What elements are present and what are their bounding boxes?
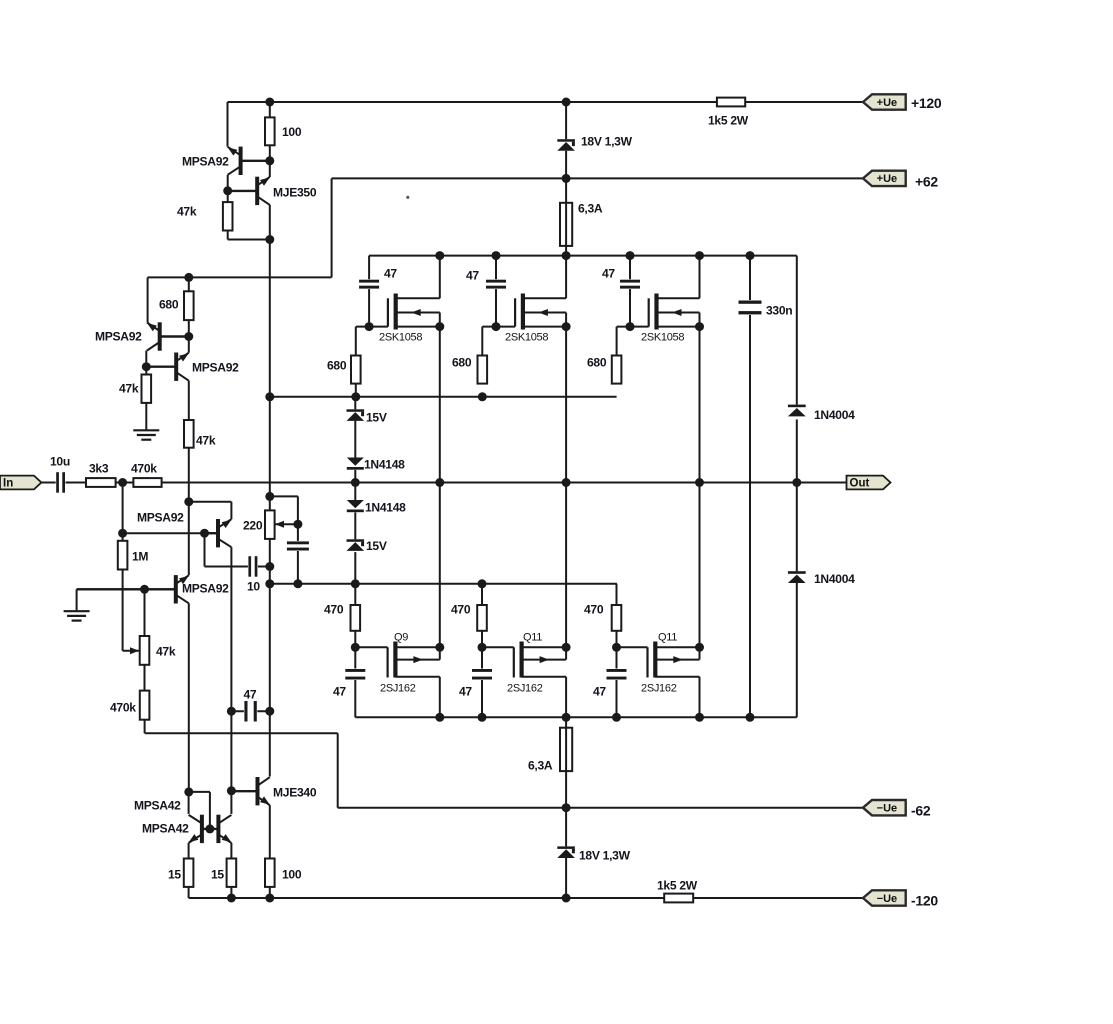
- fuse 6,3A (+62): [560, 203, 572, 246]
- wire upper mosfet rail: [369, 255, 797, 257]
- zener 18V 1,3W (bottom): [557, 846, 575, 858]
- mosfet 2SK1058 #2: [515, 294, 548, 330]
- mosfet 2SJ162 #2: [514, 642, 549, 678]
- wire Q3 body stub: [655, 659, 699, 661]
- junction lower rail / Q9 drain: [435, 713, 444, 722]
- junction lower bias rail / VAS column: [265, 579, 274, 588]
- junction cap47-4 left / Q3 collector column: [227, 707, 236, 716]
- wire 680-1 drop: [355, 327, 357, 356]
- wire out to 1N4004-2: [796, 483, 798, 572]
- svg-text:2SK1058: 2SK1058: [379, 332, 422, 344]
- wire upper bias line y277: [148, 276, 332, 278]
- svg-text:100: 100: [282, 125, 302, 139]
- wire Q2 source stub: [522, 646, 567, 648]
- wire 1N4148 to out line: [354, 470, 356, 483]
- svg-text:2SJ162: 2SJ162: [380, 683, 416, 695]
- svg-text:15: 15: [168, 868, 181, 882]
- junction lower rail / fuse2 / Q10 drain: [562, 713, 571, 722]
- wire 15V-2 to lower bias rail: [354, 552, 356, 584]
- junction Q9 source: [435, 643, 444, 652]
- wire cap47-3 to gate node: [629, 289, 631, 327]
- junction +62 rail / fuse column: [562, 174, 571, 183]
- wire VAS column to cap47 line: [269, 584, 271, 711]
- resistor 47k (MPSA92 top bias): [223, 202, 233, 230]
- junction 680 bottom / Q1 base / Q2 emitter: [184, 332, 193, 341]
- junction rail / 330n: [746, 251, 755, 260]
- svg-text:2SK1058: 2SK1058: [505, 332, 548, 344]
- wire 1M top lead: [122, 533, 124, 541]
- wire 220 wiper lead: [275, 523, 298, 525]
- wire 47k bottom jog down: [227, 231, 229, 240]
- svg-text:470: 470: [451, 603, 471, 617]
- wire Q5 emitter to 15: [188, 843, 190, 859]
- svg-text:47: 47: [384, 267, 397, 281]
- junction lower bias rail / diode chain / 470-1: [351, 579, 360, 588]
- junction lower rail / cap47L-2: [478, 713, 487, 722]
- wire Q3 body jog: [699, 647, 701, 659]
- junction 1M top / base line: [118, 529, 127, 538]
- wire 220 jog down to wiper: [297, 496, 299, 541]
- svg-text:10u: 10u: [50, 455, 70, 469]
- stray mark: [406, 196, 409, 199]
- wire 1M bottom to trimmer: [122, 570, 124, 651]
- wire cap47-1 top lead: [368, 256, 370, 280]
- wire M2 source vertical: [565, 327, 567, 648]
- wire lower gate row Q2: [482, 646, 514, 648]
- arrow 220 trimmer wiper: [275, 521, 284, 528]
- svg-text:MPSA92: MPSA92: [182, 582, 229, 596]
- wire 470-1 top lead: [354, 584, 356, 605]
- svg-text:MPSA42: MPSA42: [142, 822, 189, 836]
- wire node204 down: [204, 533, 206, 566]
- wire M2 drain vertical: [565, 256, 567, 299]
- wire cap47L-1 drop: [354, 647, 356, 669]
- wire 47k jog to MJE350 collector: [228, 239, 270, 241]
- svg-text:47: 47: [333, 685, 346, 699]
- resistor 100 (current source): [265, 117, 275, 145]
- wire lower gate row Q3: [617, 646, 648, 648]
- junction MPSA92 collector / 47k: [223, 186, 232, 195]
- wire 680 top lead: [188, 277, 190, 291]
- wire +62 drop to bias line: [331, 178, 333, 277]
- capacitor 10 (lag): [248, 556, 258, 577]
- transistor MJE350: [228, 177, 270, 205]
- wire VAS column MJE350 collector down: [269, 205, 271, 497]
- svg-text:330n: 330n: [766, 304, 792, 318]
- junction M1 source: [435, 322, 444, 331]
- wire Q5 collector up: [188, 792, 190, 814]
- wire 47k-1 to ground: [145, 403, 147, 430]
- wire 470-2 top lead: [481, 584, 483, 605]
- wire 470-2 bottom lead: [481, 631, 483, 648]
- wire Q2 drain vertical: [565, 677, 567, 718]
- junction ground line / trimmer top: [140, 585, 149, 594]
- transistor MPSA42 Q6: [210, 815, 232, 843]
- capacitor 47 gate M2: [486, 279, 506, 289]
- resistor 47k-1 (Q1 collector): [142, 375, 152, 403]
- wire M3 drain vertical: [699, 256, 701, 299]
- transistor MPSA42 Q5: [189, 815, 210, 843]
- wire gate row M1: [356, 326, 388, 328]
- junction lower rail / 330n: [746, 713, 755, 722]
- junction Q10 gate node: [478, 643, 487, 652]
- diode 1N4148 (upper): [347, 458, 364, 470]
- wire top-left vertical: [227, 102, 229, 147]
- svg-text:18V 1,3W: 18V 1,3W: [579, 849, 631, 863]
- junction lower rail / cap47L-3: [612, 713, 621, 722]
- transistor MJE340: [231, 777, 269, 805]
- junction VAS column / cap10: [265, 562, 274, 571]
- resistor 47k-2 (Q2 collector): [184, 420, 194, 448]
- capacitor at 220 wiper: [287, 541, 309, 551]
- junction bias rail / VAS column: [265, 392, 274, 401]
- junction Q10 source: [562, 643, 571, 652]
- svg-text:Out: Out: [850, 478, 870, 490]
- diode 1N4148 (lower): [347, 500, 364, 512]
- resistor 15-2 (Q6 emitter): [227, 859, 237, 887]
- diode 1N4004 (lower clamp): [788, 571, 806, 583]
- svg-text:In: In: [3, 478, 13, 490]
- wire chain node to zener 15V: [354, 397, 356, 410]
- svg-text:470k: 470k: [110, 701, 136, 715]
- wire cap47-4 line: [231, 710, 269, 712]
- wire +62 to fuse: [565, 178, 567, 202]
- svg-text:2SJ162: 2SJ162: [507, 683, 543, 695]
- wire ground line y589: [77, 588, 176, 590]
- junction Q11 gate node: [612, 643, 621, 652]
- transistor MPSA92 Q2: [146, 353, 189, 381]
- junction 680 top: [184, 273, 193, 282]
- wire M2 drain stub: [523, 297, 566, 299]
- svg-text:3k3: 3k3: [89, 462, 109, 476]
- wire lower gate row Q1: [355, 646, 387, 648]
- svg-text:MPSA92: MPSA92: [192, 361, 239, 375]
- wire cap47-2 to gate node: [495, 289, 497, 327]
- resistor 3k3 (input): [86, 478, 116, 487]
- svg-text:15: 15: [211, 868, 224, 882]
- diode 1N4004 (upper clamp): [788, 405, 806, 417]
- junction lower bias rail / 470-2: [478, 579, 487, 588]
- wire cap47L-3 bottom lead: [616, 680, 618, 718]
- resistor 47k trimmer body: [140, 636, 150, 665]
- wire emitter drop MPSA92 Q1: [147, 277, 149, 322]
- svg-text:+Ue: +Ue: [877, 173, 898, 185]
- svg-text:220: 220: [243, 519, 263, 533]
- resistor 220 trimmer body: [265, 510, 275, 539]
- svg-text:47k: 47k: [119, 382, 139, 396]
- svg-text:47: 47: [466, 269, 479, 283]
- junction base line / cap10 branch: [200, 529, 209, 538]
- svg-text:680: 680: [159, 298, 179, 312]
- svg-text:15V: 15V: [366, 539, 387, 553]
- capacitor 47-4 (VAS): [244, 701, 257, 722]
- wire Q2 drain stub: [522, 676, 567, 678]
- wire ground stem: [76, 589, 78, 611]
- wire Q3col to MJE340 base node: [230, 711, 232, 791]
- svg-text:10: 10: [247, 580, 260, 594]
- wire M3 drain stub: [657, 297, 700, 299]
- wire zener to 1N4148: [354, 421, 356, 458]
- resistor 680-3 (gate): [612, 356, 622, 384]
- wire 680-3 drop: [616, 327, 618, 356]
- svg-text:1N4148: 1N4148: [364, 458, 405, 472]
- svg-text:1N4004: 1N4004: [814, 408, 855, 422]
- wire cap10 line: [205, 566, 270, 568]
- wire bridge down to Q3 emitter: [230, 502, 232, 520]
- svg-text:47k: 47k: [196, 434, 216, 448]
- svg-text:6,3A: 6,3A: [578, 202, 603, 216]
- junction VAS column / 220 top: [265, 492, 274, 501]
- junction M2 source: [562, 322, 571, 331]
- wire M1 drain stub: [396, 297, 440, 299]
- svg-text:47: 47: [602, 267, 615, 281]
- wire M3 source vertical: [699, 327, 701, 648]
- resistor 470k (feedback): [133, 478, 161, 487]
- resistor 100-2 (MJE340 emitter): [265, 859, 275, 887]
- svg-text:Q11: Q11: [658, 632, 677, 644]
- wire M2 source stub: [523, 326, 566, 328]
- junction -120 rail / 100-2: [265, 894, 274, 903]
- wire M1 source vertical: [439, 327, 441, 648]
- junction -120 rail / 15-2: [227, 894, 236, 903]
- wire rail to 18V zener: [565, 102, 567, 139]
- wire input/output main line: [41, 482, 846, 484]
- junction MJE350 collector / 47k jog: [265, 235, 274, 244]
- svg-text:MPSA92: MPSA92: [95, 330, 142, 344]
- wire feedback drop to -62: [337, 733, 339, 808]
- wire Q2 emitter up: [188, 337, 190, 353]
- svg-text:2SK1058: 2SK1058: [641, 332, 684, 344]
- wire M1 source stub: [396, 326, 440, 328]
- wire upper bias rail y397: [270, 396, 617, 398]
- wire Q2 body jog: [565, 647, 567, 659]
- junction Q4 collector / MPSA42 bases: [184, 787, 193, 796]
- wire +62 rail: [332, 177, 863, 179]
- wire fuse to mos rail: [565, 246, 567, 256]
- wire 220 top lead: [269, 496, 271, 510]
- wire 1N4004-2 to lower rail: [796, 582, 798, 717]
- ground (input pair reference): [64, 611, 90, 620]
- svg-text:680: 680: [452, 356, 472, 370]
- junction rail / cap47-3: [626, 251, 635, 260]
- ground (Q1 emitter leg): [133, 430, 159, 439]
- wire 47k-2 bottom / Q4 emitter column: [188, 448, 190, 576]
- wire MJE340 base node to Q6 collector: [230, 791, 232, 814]
- junction rail / M1 drain: [435, 251, 444, 260]
- junction MPSA42 base pair: [205, 824, 214, 833]
- wire 330n top lead: [749, 256, 751, 301]
- svg-text:1k5 2W: 1k5 2W: [708, 114, 749, 128]
- wire 15-2 bottom lead: [230, 887, 232, 898]
- capacitor 47 gate Q2: [472, 669, 492, 681]
- wire Q1 body stub: [395, 659, 439, 661]
- svg-text:680: 680: [587, 356, 607, 370]
- wire Q1 drain vertical: [439, 677, 441, 718]
- wire lower rail to fuse2: [565, 717, 567, 727]
- wire M1 body stub: [396, 312, 440, 314]
- wire cap-c bottom lead: [297, 551, 299, 584]
- arrow 47k trimmer wiper: [130, 647, 139, 654]
- junction out line / source column 2: [562, 478, 571, 487]
- svg-text:MPSA42: MPSA42: [134, 799, 181, 813]
- svg-text:1k5 2W: 1k5 2W: [657, 879, 698, 893]
- svg-text:+Ue: +Ue: [877, 97, 898, 109]
- wire cap47L-2 drop: [481, 647, 483, 669]
- svg-text:2SJ162: 2SJ162: [641, 683, 677, 695]
- svg-text:680: 680: [327, 359, 347, 373]
- junction rail / fuse / M2 drain: [562, 251, 571, 260]
- svg-text:470: 470: [324, 603, 344, 617]
- junction out line / clamp diodes: [792, 478, 801, 487]
- power port +Ve (+62): [863, 171, 906, 186]
- transistor MPSA92 (top current source): [228, 147, 270, 175]
- wire cap47-2 top lead: [495, 256, 497, 280]
- wire M2 body stub: [523, 312, 566, 314]
- wire Q2 body stub: [522, 659, 567, 661]
- wire cap47-3 top lead: [629, 256, 631, 280]
- junction M3 gate node: [626, 322, 635, 331]
- junction Q11 source: [695, 643, 704, 652]
- svg-text:Q11: Q11: [523, 632, 542, 644]
- wire Q3 collector down: [230, 547, 232, 711]
- wire Q4 collector down: [188, 603, 190, 792]
- wire MPSA92-top collector to 47k: [227, 175, 229, 202]
- resistor 1k5 2W (+120 feed): [717, 98, 745, 107]
- svg-text:18V 1,3W: 18V 1,3W: [581, 135, 633, 149]
- junction lower rail / Q11 drain: [695, 713, 704, 722]
- port In: [0, 476, 41, 490]
- wire gate row M3: [617, 326, 649, 328]
- junction 220 wiper / cap branch: [293, 520, 302, 529]
- junction bias rail / 680-1 / diode chain: [351, 392, 360, 401]
- svg-text:1N4004: 1N4004: [814, 572, 855, 586]
- wire Q1 collector down: [145, 351, 147, 375]
- power port +Ve (+120): [863, 94, 906, 109]
- capacitor 47 gate M1: [359, 279, 379, 289]
- svg-text:−Ue: −Ue: [877, 893, 898, 905]
- wire input node down: [122, 483, 124, 534]
- wire 100 bottom lead to base node: [269, 145, 271, 177]
- wire M3 body jog: [699, 313, 701, 327]
- transistor MPSA92 Q3 (input pair): [205, 519, 232, 547]
- wire -120 rail: [189, 897, 863, 899]
- wire clamp column top: [796, 256, 798, 405]
- mosfet 2SJ162 #1: [388, 642, 423, 678]
- wire cap47L-1 bottom lead: [354, 680, 356, 718]
- svg-text:+62: +62: [915, 174, 938, 190]
- wire 15-1 bottom lead: [188, 887, 190, 898]
- mosfet 2SK1058 #1: [388, 294, 421, 330]
- svg-text:47: 47: [459, 685, 472, 699]
- wire M3 source stub: [657, 326, 700, 328]
- junction -62 rail / fuse column: [562, 803, 571, 812]
- wire 330n bottom lead: [749, 314, 751, 717]
- svg-text:470: 470: [584, 603, 604, 617]
- junction cap47-4 right / VAS column: [265, 707, 274, 716]
- junction lower bias rail / cap-c: [293, 579, 302, 588]
- wire 1N4004-1 to out: [796, 419, 798, 482]
- wire VAS column to MJE340 collector: [269, 711, 271, 776]
- svg-text:−Ue: −Ue: [877, 803, 898, 815]
- wire M2 body jog: [565, 313, 567, 327]
- svg-text:100: 100: [282, 868, 302, 882]
- wire cap47L-2 bottom lead: [481, 680, 483, 718]
- wire M1 drain vertical: [439, 256, 441, 299]
- junction 100 / base / MJE350 emitter: [265, 156, 274, 165]
- junction M3 source: [695, 322, 704, 331]
- wire Q1 source stub: [395, 646, 439, 648]
- resistor 1k5 2W (-120 feed): [664, 894, 693, 903]
- wire out line to 1N4148-2: [354, 483, 356, 501]
- svg-text:-120: -120: [911, 893, 938, 909]
- wire Q1 body jog: [439, 647, 441, 659]
- wire trimmer bottom to 470k: [144, 665, 146, 691]
- wire fuse2 to -62: [565, 771, 567, 808]
- svg-text:15V: 15V: [366, 411, 387, 425]
- wire trimmer top lead: [144, 589, 146, 636]
- svg-text:Q9: Q9: [394, 632, 408, 644]
- resistor 680-1 (gate): [351, 356, 361, 384]
- wire 18V zener to +62: [565, 151, 567, 179]
- junction Q9 gate node: [351, 643, 360, 652]
- svg-text:470k: 470k: [131, 462, 157, 476]
- junction out line / diode chain: [351, 478, 360, 487]
- junction rail / M3 drain: [695, 251, 704, 260]
- wire +120 rail: [228, 101, 864, 103]
- svg-text:1N4148: 1N4148: [365, 501, 406, 515]
- wire Q2 collector to 47k-2: [188, 381, 190, 420]
- resistor 470-2 (gate): [477, 605, 487, 631]
- wire base line y533: [123, 532, 218, 534]
- wire gate row M2: [482, 326, 515, 328]
- zener 15V (lower): [347, 539, 365, 551]
- wire cap47L-3 drop: [616, 647, 618, 669]
- wire Q6 emitter to 15: [230, 843, 232, 859]
- mosfet 2SK1058 #3: [649, 294, 682, 330]
- wire Q3 source stub: [655, 646, 699, 648]
- transistor MPSA92 Q1: [147, 322, 189, 350]
- svg-text:1M: 1M: [132, 550, 148, 564]
- svg-text:MPSA92: MPSA92: [137, 511, 184, 525]
- wire 680-2 drop: [481, 327, 483, 356]
- wire 470-1 bottom lead: [354, 631, 356, 648]
- resistor 15-1 (Q5 emitter): [184, 859, 194, 887]
- svg-text:47k: 47k: [177, 205, 197, 219]
- wire MPSA42 base bridge horiz: [189, 791, 210, 793]
- wire MJE340 emitter to 100: [269, 805, 271, 858]
- junction bias rail / 680-2: [478, 392, 487, 401]
- power port -Ve (-62): [863, 800, 906, 815]
- svg-text:47: 47: [593, 685, 606, 699]
- svg-text:47: 47: [244, 688, 257, 702]
- wire 470k bottom corner: [144, 720, 146, 734]
- svg-text:-62: -62: [911, 803, 931, 819]
- wire M3 body stub: [657, 312, 700, 314]
- resistor 470-3 (gate): [612, 605, 622, 631]
- power port -Ve (-120): [863, 890, 906, 905]
- svg-text:MJE350: MJE350: [273, 186, 317, 200]
- junction -120 rail / zener column: [562, 894, 571, 903]
- wire cap47-1 to gate node: [368, 289, 370, 327]
- svg-text:MJE340: MJE340: [273, 786, 317, 800]
- resistor 680 (cascode bias): [184, 291, 194, 320]
- resistor 1M (input bias): [118, 541, 128, 570]
- capacitor 47 gate Q1: [345, 669, 365, 681]
- zener 15V (upper): [347, 409, 365, 421]
- svg-text:6,3A: 6,3A: [528, 759, 553, 773]
- junction rail / cap47-2: [492, 251, 501, 260]
- wire 680-1 bottom lead: [355, 384, 357, 397]
